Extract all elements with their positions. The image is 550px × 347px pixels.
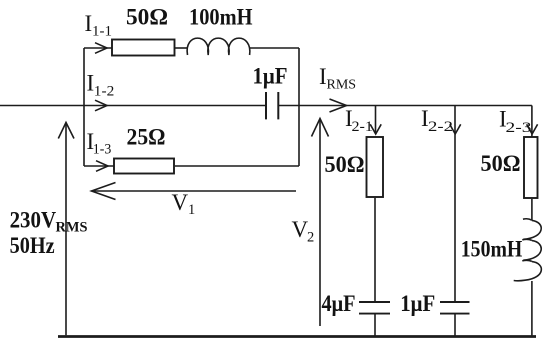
svg-text:1μF: 1μF xyxy=(253,64,288,89)
svg-text:V: V xyxy=(292,217,309,242)
svg-text:V: V xyxy=(172,190,189,215)
svg-text:25Ω: 25Ω xyxy=(127,125,166,150)
svg-text:50Ω: 50Ω xyxy=(481,151,521,176)
svg-text:50Ω: 50Ω xyxy=(325,152,365,177)
svg-text:2-2: 2-2 xyxy=(428,119,453,135)
svg-text:4μF: 4μF xyxy=(322,291,356,316)
svg-text:1-1: 1-1 xyxy=(92,24,112,40)
svg-text:150mH: 150mH xyxy=(461,237,523,262)
svg-text:1-2: 1-2 xyxy=(94,84,115,100)
svg-text:2: 2 xyxy=(307,230,314,246)
svg-text:100mH: 100mH xyxy=(189,5,253,30)
svg-text:RMS: RMS xyxy=(327,78,357,93)
svg-text:1-3: 1-3 xyxy=(93,142,112,158)
svg-text:RMS: RMS xyxy=(56,220,88,236)
svg-text:2-1: 2-1 xyxy=(352,119,374,135)
svg-text:2-3: 2-3 xyxy=(506,120,532,136)
svg-text:50Hz: 50Hz xyxy=(10,233,55,258)
svg-text:50Ω: 50Ω xyxy=(126,5,168,30)
svg-text:1: 1 xyxy=(188,202,195,218)
svg-text:230V: 230V xyxy=(10,208,57,233)
svg-text:1μF: 1μF xyxy=(400,291,435,316)
